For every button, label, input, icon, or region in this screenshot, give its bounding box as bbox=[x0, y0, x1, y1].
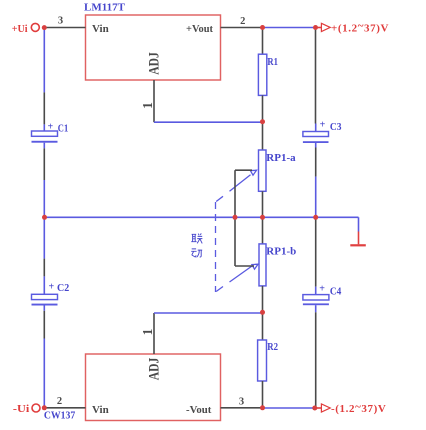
wire R2 to bottom bbox=[262, 381, 264, 408]
wire ADJ U1 vertical bbox=[153, 80, 155, 122]
wire C3 down dark bbox=[315, 148, 317, 177]
wire ADJ U1 horizontal bbox=[154, 121, 263, 123]
wire top node to +output node bbox=[263, 27, 316, 29]
wire wiper vertical bbox=[234, 170, 236, 266]
wire wiper RP1-b horizontal bbox=[235, 265, 254, 267]
svg-text:3: 3 bbox=[239, 397, 244, 408]
svg-text:2: 2 bbox=[240, 16, 245, 27]
linkage text (lian dong) bbox=[191, 233, 202, 257]
linkage dashed line bbox=[215, 202, 217, 292]
svg-text:C1: C1 bbox=[58, 123, 68, 135]
svg-text:ADJ: ADJ bbox=[146, 52, 162, 75]
wire lead to C2 bbox=[43, 259, 45, 277]
svg-text:C3: C3 bbox=[330, 121, 342, 133]
wire RP1-a bottom to mid bbox=[262, 191, 264, 244]
svg-text:Vin: Vin bbox=[92, 404, 109, 416]
svg-text:2: 2 bbox=[57, 396, 62, 407]
wire C1 to mid bbox=[43, 148, 45, 180]
junction node ADJ1 bbox=[260, 119, 265, 124]
capacitor C2 bbox=[32, 276, 58, 310]
junction node mid center bbox=[260, 215, 265, 220]
svg-text:R1: R1 bbox=[267, 56, 278, 68]
svg-text:1: 1 bbox=[140, 328, 155, 335]
junction node mid left bbox=[42, 215, 47, 220]
wire left column +Ui down bbox=[43, 28, 45, 93]
terminal +output arrow bbox=[316, 20, 389, 34]
svg-text:-Ui: -Ui bbox=[13, 403, 29, 415]
junction node top right bbox=[313, 25, 318, 30]
wire wiper RP1-a horizontal bbox=[235, 169, 252, 171]
junction node +Ui bbox=[42, 25, 47, 30]
wire ground drop bbox=[358, 217, 360, 231]
terminal -output arrow bbox=[316, 401, 386, 415]
wiper arrow RP1-a bbox=[216, 170, 256, 201]
junction node mid right bbox=[313, 215, 318, 220]
op-amp U1 LM117T regulator box bbox=[86, 15, 221, 80]
resistor R2 bbox=[258, 340, 267, 381]
svg-text:1: 1 bbox=[140, 102, 155, 109]
junction node bottom center bbox=[260, 405, 265, 410]
svg-text:-Vout: -Vout bbox=[186, 404, 212, 416]
resistor R1 bbox=[258, 54, 266, 95]
svg-text:Vin: Vin bbox=[92, 23, 109, 35]
wire +Ui to U1 Vin bbox=[46, 27, 86, 29]
svg-text:C4: C4 bbox=[330, 286, 342, 298]
wiper arrow RP1-b bbox=[216, 264, 258, 291]
junction node bottom right bbox=[312, 406, 317, 411]
svg-text:+Ui: +Ui bbox=[12, 23, 28, 35]
wire left column to -Ui bbox=[43, 339, 45, 408]
junction node ADJ2 bbox=[260, 310, 265, 315]
capacitor C3 bbox=[303, 124, 329, 148]
op-amp U2 CW137 regulator box bbox=[86, 354, 221, 421]
wire ADJ U2 vertical bbox=[153, 313, 155, 354]
junction node top center bbox=[260, 25, 265, 30]
wire R1 to node bbox=[262, 95, 264, 150]
svg-text:LM117T: LM117T bbox=[84, 2, 126, 14]
capacitor C4 bbox=[303, 287, 329, 313]
svg-text:+Vout: +Vout bbox=[186, 23, 213, 35]
svg-text:+: + bbox=[49, 282, 55, 293]
wire lead to C1 bbox=[43, 92, 45, 124]
wire middle rail bbox=[44, 216, 358, 218]
wire C3 to mid blue bbox=[315, 177, 317, 218]
wire left column mid bbox=[43, 180, 45, 259]
wire bottom node to -output bbox=[263, 407, 315, 409]
wire center column top to R1 bbox=[262, 28, 264, 55]
potentiometer RP1-b bbox=[259, 244, 266, 286]
potentiometer RP1-a bbox=[259, 150, 267, 191]
terminal -Ui bbox=[13, 403, 40, 415]
svg-text:3: 3 bbox=[58, 16, 63, 27]
capacitor C1 bbox=[32, 124, 58, 148]
wire ADJ U2 horizontal bbox=[154, 312, 263, 314]
wire U2 -Vout to node bbox=[221, 407, 263, 409]
svg-text:RP1-b: RP1-b bbox=[266, 246, 296, 258]
svg-text:C2: C2 bbox=[57, 282, 70, 294]
junction node mid wiper bbox=[233, 215, 238, 220]
svg-text:RP1-a: RP1-a bbox=[266, 152, 296, 164]
wire C4 to bottom bbox=[315, 312, 317, 408]
svg-text:ADJ: ADJ bbox=[146, 358, 162, 381]
svg-text:+: + bbox=[319, 284, 325, 295]
ground bbox=[350, 232, 366, 246]
wire RP1-b bottom to node bbox=[262, 286, 264, 340]
wire C2 down bbox=[43, 311, 45, 339]
terminal +Ui bbox=[12, 23, 40, 35]
svg-text:R2: R2 bbox=[267, 341, 278, 353]
wire -Ui to U2 Vin bbox=[46, 407, 86, 409]
svg-text:CW137: CW137 bbox=[44, 409, 76, 421]
svg-text:+: + bbox=[48, 122, 54, 133]
wire U1 +Vout to node bbox=[221, 27, 263, 29]
svg-text:+: + bbox=[320, 120, 326, 131]
wire right column top bbox=[315, 28, 317, 124]
wire mid to C4 bbox=[315, 217, 317, 286]
junction node -Ui bbox=[42, 405, 47, 410]
